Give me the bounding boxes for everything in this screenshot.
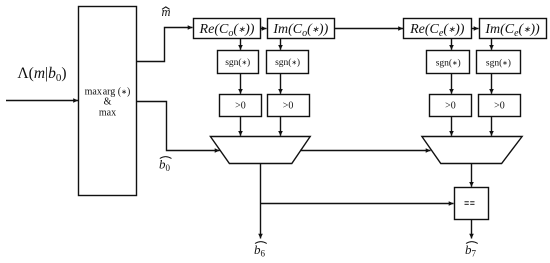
svg-text:Re(Ce(∗)): Re(Ce(∗)) xyxy=(409,22,465,39)
svg-text:sgn(∗): sgn(∗) xyxy=(225,57,250,68)
svg-text:Im(Co(∗)): Im(Co(∗)) xyxy=(272,22,328,39)
svg-text:>0: >0 xyxy=(494,101,505,112)
svg-text:sgn(∗): sgn(∗) xyxy=(275,57,300,68)
svg-text:sgn(∗): sgn(∗) xyxy=(486,57,511,68)
svg-text:max: max xyxy=(99,108,116,119)
svg-text:>0: >0 xyxy=(445,101,456,112)
svg-text:Im(Ce(∗)): Im(Ce(∗)) xyxy=(484,22,540,39)
svg-text:sgn(∗): sgn(∗) xyxy=(436,57,461,68)
svg-text:>0: >0 xyxy=(235,101,246,112)
svg-text:>0: >0 xyxy=(283,101,294,112)
svg-text:Re(Co(∗)): Re(Co(∗)) xyxy=(199,22,255,39)
svg-text:&: & xyxy=(104,97,112,108)
